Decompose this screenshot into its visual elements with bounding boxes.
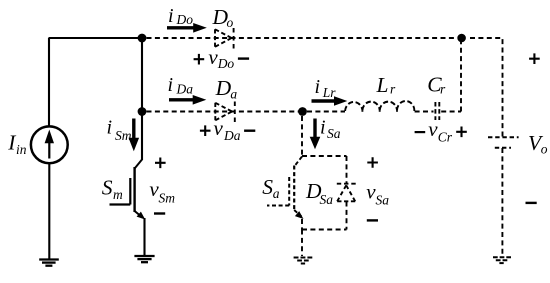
- wire row1 dashed (node A to node C): [147, 37, 458, 39]
- wire vertical dashed (corner up to node C): [460, 38, 462, 112]
- wire row2 dashed (node D to Lr): [307, 111, 345, 113]
- wire left rail lower solid: [48, 163, 50, 259]
- svg-text:i: i: [168, 5, 174, 27]
- transistor Sa (IGBT symbol, dashed): [267, 157, 302, 217]
- ground (under Sa, dashed): [294, 258, 313, 264]
- wire Sm emitter to ground solid: [143, 218, 145, 256]
- svg-text:S: S: [262, 175, 273, 199]
- svg-text:Cr: Cr: [438, 129, 453, 144]
- battery Vo (dashed plates): [488, 137, 519, 148]
- svg-text:Lr: Lr: [322, 85, 337, 100]
- label vSm: [149, 177, 175, 205]
- svg-text:I: I: [7, 130, 16, 154]
- node B junction dot: [138, 107, 147, 116]
- ground (under Vo, dashed): [493, 257, 511, 263]
- diode Da (dashed): [215, 102, 235, 123]
- svg-text:i: i: [320, 117, 326, 139]
- wire Sa loop top dashed: [302, 155, 347, 157]
- svg-text:Sa: Sa: [327, 126, 341, 141]
- svg-text:o: o: [541, 141, 548, 156]
- label DSa: [305, 179, 333, 207]
- wire left rail upper solid: [48, 38, 50, 126]
- label Sa: [262, 175, 280, 201]
- wire Sa branch vertical dashed (node D down): [301, 116, 303, 156]
- label Cr: [427, 73, 446, 97]
- label iSm: [107, 117, 132, 144]
- label + vDo -: [194, 45, 250, 71]
- svg-text:Sm: Sm: [115, 128, 132, 143]
- transistor Sa emitter arrowhead: [295, 211, 304, 219]
- current source Iin circle: [31, 126, 68, 163]
- wire main rail solid (node A to Sm): [141, 38, 143, 160]
- node A junction dot: [138, 34, 147, 43]
- label + vDa -: [200, 116, 255, 143]
- wire row2 dashed (Cr to corner): [441, 111, 461, 113]
- label Iin: [7, 130, 27, 157]
- svg-text:o: o: [227, 15, 234, 30]
- current arrow iLr: [312, 96, 348, 106]
- label - (Sa): [367, 219, 378, 221]
- label Vo: [528, 131, 548, 156]
- label iDo: [168, 5, 193, 27]
- label iDa: [168, 74, 194, 97]
- wire Vo rail lower dashed: [501, 148, 503, 256]
- diode DSa (dashed, pointing up): [337, 184, 356, 202]
- svg-text:S: S: [102, 176, 113, 200]
- wire Sa to ground dashed: [301, 230, 303, 257]
- label iSa: [320, 117, 341, 141]
- svg-text:Da: Da: [176, 82, 194, 97]
- label Da: [215, 76, 238, 101]
- svg-text:Do: Do: [176, 12, 194, 27]
- svg-text:Sa: Sa: [320, 192, 334, 207]
- transistor Sm (IGBT symbol, solid): [110, 160, 146, 220]
- wire DSa branch upper vertical dashed: [346, 156, 348, 183]
- diode Do (dashed): [215, 28, 234, 49]
- svg-text:v: v: [428, 117, 438, 141]
- wire Sa loop bottom dashed: [302, 229, 347, 231]
- wire top-left horizontal solid: [49, 37, 143, 39]
- label - (Vo): [526, 202, 537, 204]
- current arrow iSm (down): [129, 119, 140, 152]
- inductor Lr (dashed humps): [345, 101, 414, 112]
- svg-text:i: i: [315, 76, 321, 98]
- node C junction dot: [457, 34, 466, 43]
- svg-text:Da: Da: [223, 128, 241, 143]
- label Do: [212, 5, 234, 30]
- svg-text:a: a: [230, 87, 237, 102]
- svg-text:a: a: [273, 186, 280, 201]
- label Lr: [376, 73, 397, 97]
- current arrow iDo: [167, 23, 207, 33]
- current arrow iSa (down): [310, 119, 321, 150]
- label iLr: [315, 76, 337, 100]
- svg-text:Sa: Sa: [376, 193, 390, 208]
- wire top-right dashed (node C to Vo rail): [470, 38, 503, 137]
- label + (Sm): [155, 158, 166, 169]
- label + (Vo): [529, 53, 540, 64]
- svg-text:Do: Do: [217, 56, 235, 71]
- svg-text:Sm: Sm: [159, 191, 176, 206]
- svg-text:v: v: [214, 116, 224, 140]
- ground (under Sm): [134, 256, 154, 262]
- label - (Sm): [154, 212, 165, 214]
- svg-text:in: in: [16, 142, 27, 157]
- label Sm: [102, 176, 123, 202]
- wire row2 dashed (node B to node D): [147, 111, 301, 113]
- svg-text:r: r: [440, 82, 446, 97]
- wire Sa emitter to loop bottom dashed: [301, 219, 303, 230]
- capacitor Cr (dashed plates): [435, 102, 439, 120]
- wire DSa branch lower vertical dashed: [346, 202, 348, 230]
- label - vCr +: [415, 117, 467, 144]
- current arrow iDa: [169, 95, 206, 105]
- label vSa: [366, 180, 389, 208]
- svg-text:i: i: [168, 74, 174, 96]
- label + (Sa): [367, 157, 378, 168]
- ground (left, under Iin): [39, 260, 59, 266]
- wire row2 dashed (Lr to Cr): [415, 111, 434, 113]
- svg-text:m: m: [113, 187, 123, 202]
- svg-text:r: r: [390, 82, 396, 97]
- svg-text:D: D: [215, 76, 232, 100]
- node D junction dot: [298, 107, 307, 116]
- current source Iin arrow: [45, 130, 54, 159]
- svg-text:i: i: [107, 117, 113, 139]
- svg-text:L: L: [376, 73, 389, 97]
